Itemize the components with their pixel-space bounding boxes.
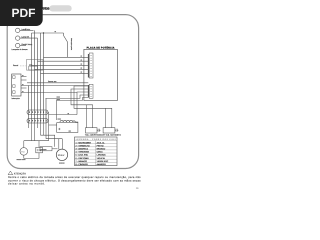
capacitor symbol T2 bbox=[115, 129, 119, 132]
legend row texts bbox=[76, 141, 109, 166]
wire lead L1 bbox=[20, 29, 34, 31]
svg-text:xx: xx bbox=[81, 60, 83, 62]
switch S1 bbox=[64, 33, 68, 57]
wire H2 pin e bbox=[57, 98, 89, 121]
wire bus B bbox=[32, 32, 64, 34]
wire bundle vertical V2 bbox=[31, 33, 33, 123]
wire bundle vertical V3 bbox=[34, 30, 36, 123]
svg-text:6 - PRETO/BR: 6 - PRETO/BR bbox=[76, 157, 90, 160]
svg-text:CINZA: CINZA bbox=[97, 151, 104, 154]
pill P2 pin ticks bbox=[30, 120, 47, 122]
coil FL1 bbox=[60, 120, 75, 122]
wire coil right bbox=[75, 121, 78, 124]
svg-text:Sensor xxx: Sensor xxx bbox=[48, 80, 57, 83]
svg-text:xxxxxx xxxx: xxxxxx xxxx bbox=[17, 159, 26, 161]
K1 pin stub 1 bbox=[21, 76, 27, 78]
wire H2 pin d bbox=[46, 95, 89, 98]
motor M1 bbox=[56, 149, 67, 160]
svg-text:xxxxxxx: xxxxxxx bbox=[41, 149, 47, 151]
connector block K1 bbox=[12, 74, 21, 96]
wire bundle vertical V7 bbox=[45, 98, 47, 123]
PLACA header H2 pin bar bbox=[88, 85, 89, 98]
svg-text:xx: xx bbox=[81, 68, 83, 70]
svg-text:xx: xx bbox=[22, 91, 24, 93]
wire bundle vertical V1 bbox=[28, 86, 30, 124]
node bus B junction bbox=[43, 32, 44, 33]
wire into C1 bbox=[49, 124, 57, 126]
PLACA header H2 body bbox=[89, 84, 93, 98]
page background bbox=[0, 0, 149, 198]
svg-text:xxxx: xxxx bbox=[57, 99, 61, 101]
K1 pin stub 4 bbox=[21, 87, 27, 89]
svg-text:xx: xx bbox=[22, 84, 24, 86]
wire bundle vertical V6 bbox=[43, 33, 45, 123]
capacitor symbol T1 bbox=[97, 129, 101, 132]
svg-text:2 - VERMELHO: 2 - VERMELHO bbox=[76, 144, 91, 147]
svg-text:Motor: Motor bbox=[58, 154, 65, 157]
wire H2 pin c bbox=[49, 92, 89, 141]
wire to PLACA pin 1 bbox=[44, 56, 89, 58]
svg-text:PRETO: PRETO bbox=[97, 144, 104, 147]
leader dashed K1 bbox=[20, 65, 27, 67]
svg-text:xx: xx bbox=[68, 113, 70, 115]
svg-text:xxxxxxx: xxxxxxx bbox=[59, 163, 65, 165]
K1 pin stub 5 bbox=[21, 92, 77, 94]
svg-text:VERDE ESC: VERDE ESC bbox=[97, 160, 109, 163]
svg-text:8 - CINZA/PR: 8 - CINZA/PR bbox=[76, 163, 89, 166]
legend table box bbox=[75, 137, 118, 166]
K1 pin square 1 bbox=[13, 76, 16, 79]
H1 pin numbers bbox=[90, 56, 92, 77]
wire K1 to H2 bbox=[27, 82, 88, 84]
wire to motor top bbox=[46, 139, 62, 150]
svg-text:5 - AZUL ESC: 5 - AZUL ESC bbox=[76, 154, 89, 157]
svg-text:1 - MARROM/BR: 1 - MARROM/BR bbox=[76, 141, 92, 144]
K1 pin square 2 bbox=[13, 85, 16, 88]
wire to caixa bbox=[41, 135, 55, 147]
svg-text:ATENÇÃO: ATENÇÃO bbox=[14, 171, 26, 175]
lamp L2 bbox=[16, 36, 20, 40]
svg-text:xx: xx bbox=[55, 31, 57, 33]
protetor circle PT1 bbox=[20, 148, 28, 156]
wires below pills bbox=[29, 123, 47, 141]
svg-text:xx: xx bbox=[81, 64, 83, 66]
K1 pin square 3 bbox=[13, 91, 16, 94]
relay RL1 contact bbox=[37, 149, 41, 151]
svg-text:4 - VERDE/AM: 4 - VERDE/AM bbox=[76, 151, 90, 154]
svg-text:AZUL CL: AZUL CL bbox=[97, 141, 106, 144]
svg-text:VIOLETA: VIOLETA bbox=[97, 157, 106, 160]
svg-text:Ramal: Ramal bbox=[13, 64, 19, 67]
svg-text:Interruptor: Interruptor bbox=[12, 97, 21, 100]
K1 pin stub 3 bbox=[21, 85, 88, 87]
warning triangle bbox=[8, 171, 13, 175]
wire bundle vertical V4 bbox=[37, 38, 39, 123]
wire to PLACA pin 5 bbox=[41, 72, 89, 74]
TAB box T1 bbox=[86, 128, 98, 133]
svg-text:deixar antes na mordé.: deixar antes na mordé. bbox=[8, 183, 45, 186]
svg-text:Prot: Prot bbox=[21, 150, 25, 153]
wire lead L2 bbox=[20, 37, 38, 39]
lamp L3 bbox=[16, 43, 20, 47]
svg-text:AMAR/PR: AMAR/PR bbox=[97, 163, 107, 166]
pill connector P1 bbox=[27, 110, 48, 115]
connector CN2 bbox=[29, 66, 38, 70]
wire lead L3 bbox=[20, 45, 26, 47]
svg-text:3 - AMARELO: 3 - AMARELO bbox=[76, 148, 89, 151]
legend grid divider bbox=[95, 141, 97, 166]
legend grid rows bbox=[75, 141, 118, 163]
PLACA header H1 pin bar bbox=[88, 54, 89, 78]
wire H2 pin b bbox=[71, 89, 93, 128]
PDF badge bbox=[0, 0, 43, 26]
svg-text:BRANCO: BRANCO bbox=[97, 148, 106, 151]
wire to PLACA pin 2 bbox=[38, 60, 89, 62]
svg-text:TAB. AMORTECEDOR TAB. MOVIMEN: TAB. AMORTECEDOR TAB. MOVIMENT. bbox=[85, 134, 122, 137]
svg-text:xx: xx bbox=[81, 72, 83, 74]
svg-text:Lampada do freezer: Lampada do freezer bbox=[12, 48, 28, 51]
H2 pin numbers bbox=[90, 86, 92, 96]
wire bundle vertical V5 bbox=[40, 33, 42, 123]
K1 pin stub 2 bbox=[21, 79, 27, 81]
svg-text:LEGENDA - CORES DOS FIOS: LEGENDA - CORES DOS FIOS bbox=[76, 138, 117, 141]
PLACA header H1 body bbox=[89, 53, 93, 78]
protetor loop wires bbox=[24, 141, 49, 159]
svg-text:xx: xx bbox=[81, 56, 83, 58]
svg-text:xx: xx bbox=[25, 28, 27, 30]
svg-text:7 - BRANCO: 7 - BRANCO bbox=[76, 160, 88, 163]
TAB box T2 bbox=[103, 128, 115, 133]
svg-text:PDF: PDF bbox=[12, 6, 36, 20]
wire to PLACA pin 3 bbox=[32, 64, 89, 66]
wire motor left bbox=[52, 148, 58, 150]
svg-text:xxx: xxx bbox=[69, 130, 72, 132]
svg-text:xx: xx bbox=[22, 75, 24, 77]
wire pill exit bbox=[47, 111, 50, 113]
lamp L1 bbox=[16, 28, 20, 32]
wire H2 pin a bbox=[74, 86, 112, 128]
svg-text:LARANJA: LARANJA bbox=[97, 154, 107, 157]
PLACA box bbox=[84, 49, 117, 100]
capacitor box C1 bbox=[57, 123, 78, 133]
header pill bbox=[49, 5, 71, 11]
svg-text:trica: trica bbox=[43, 7, 50, 11]
pill P1 pin ticks bbox=[30, 111, 47, 113]
svg-text:Interruptor porta: Interruptor porta bbox=[70, 38, 73, 50]
svg-text:xxxx: xxxx bbox=[58, 119, 62, 121]
plus terminal C1 bbox=[58, 128, 60, 130]
wire to PLACA pin 4 bbox=[35, 68, 89, 70]
pill connector P2 bbox=[27, 119, 48, 124]
relay box RL1 bbox=[36, 147, 43, 152]
caixa box CX1 bbox=[40, 147, 52, 151]
enclosure box CN area bbox=[27, 60, 44, 71]
